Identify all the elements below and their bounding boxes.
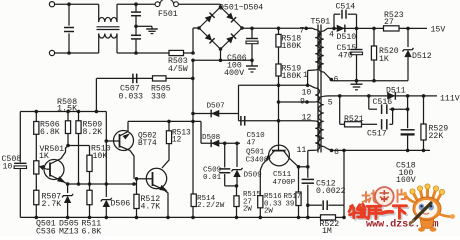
svg-text:180K: 180K xyxy=(282,42,302,51)
junction: R521 branch xyxy=(338,94,342,98)
wire: riser from startup line down to control rail xyxy=(95,78,97,111)
resistor R519 xyxy=(276,64,281,102)
transformer T501 secondary winding pins 4-6 (15V) xyxy=(319,31,324,72)
junction: Y-cap column bottom xyxy=(134,51,138,55)
svg-text:6: 6 xyxy=(334,148,339,157)
label R512 4.7K xyxy=(141,195,161,212)
svg-text:6: 6 xyxy=(334,75,339,84)
zener diode D506 xyxy=(101,198,112,218)
junction: R506 top xyxy=(35,110,39,114)
capacitor C515 xyxy=(351,28,363,80)
wire: bottom rail from R503 to main vertical bus xyxy=(184,52,194,54)
junction: R508 top xyxy=(66,110,70,114)
inductor: line filter choke core xyxy=(97,27,120,30)
transistor Q501 error amp (C536) xyxy=(44,146,68,185)
watermark text weikuyixia shadow xyxy=(351,206,408,222)
svg-text:1: 1 xyxy=(303,71,308,80)
junction: R515 bottom xyxy=(235,216,239,220)
wire: AC bottom rail from input terminal to line filter xyxy=(55,52,99,54)
svg-text:7: 7 xyxy=(300,26,305,35)
label R513 12 xyxy=(172,130,191,145)
pin label 6 (upper) xyxy=(334,75,339,84)
junction: column crosses C510 feedback line xyxy=(277,119,281,123)
junction: R529 bottom xyxy=(422,149,426,153)
label D510 xyxy=(337,33,357,42)
resistor R507 xyxy=(34,190,39,217)
junction: D507 line at vertical bus xyxy=(191,112,195,116)
watermark text www.dzsc.com xyxy=(366,218,438,230)
label R506 6.8K xyxy=(40,120,60,137)
junction: R520 bottom xyxy=(372,79,376,83)
junction: Q503 emitter bottom xyxy=(166,216,170,220)
junction: C509/D509 bottoms join R515 xyxy=(235,184,239,188)
pin label 4 xyxy=(329,31,334,40)
svg-text:C536: C536 xyxy=(36,227,56,236)
resistor R521 and capacitor C517 branch xyxy=(340,96,393,130)
resistor R520 xyxy=(371,28,376,80)
zener diode D505 xyxy=(62,184,73,217)
transformer T501 primary winding pins 7-1 xyxy=(315,30,320,71)
junction: R516 bottom xyxy=(259,216,263,220)
label R514 2.2/2W xyxy=(197,195,225,210)
svg-text:160V: 160V xyxy=(396,176,416,185)
junction: C511 bottom xyxy=(306,216,310,220)
label C510 47 xyxy=(247,132,266,147)
junction: X-cap top xyxy=(67,2,71,6)
svg-text:C516: C516 xyxy=(373,98,393,107)
svg-text:D511: D511 xyxy=(386,86,406,95)
svg-text:BT74: BT74 xyxy=(138,140,157,148)
svg-text:C3408: C3408 xyxy=(246,157,269,165)
pin 7 stub and dot xyxy=(304,27,315,31)
capacitor Y-cap lower xyxy=(131,35,141,53)
resistor R505 xyxy=(153,76,167,81)
junction: bias bus joins R512 column xyxy=(132,182,136,186)
potentiometer VR501 xyxy=(34,161,47,191)
wire: C510 feedback line to pin 12 xyxy=(239,120,312,122)
svg-text:MZ13: MZ13 xyxy=(59,227,79,236)
junction: R514 bottom xyxy=(191,216,195,220)
wire: 111V return rail from pin 6 to R529 xyxy=(332,149,431,151)
pin 5 stub xyxy=(324,95,334,97)
wire: DC+ rail from bridge right corner to transformer pin 7 xyxy=(242,27,313,29)
svg-text:D512: D512 xyxy=(412,52,432,61)
junction: R509 bottom on bias bus xyxy=(77,182,81,186)
junction: D506 bottom xyxy=(105,216,109,220)
junction: column meets pin-9 line xyxy=(277,100,281,104)
junction: Y-cap midpoint xyxy=(134,25,138,29)
svg-text:6.8K: 6.8K xyxy=(40,128,60,137)
junction: R503 rail joins vertical bus xyxy=(191,51,195,55)
wire: primary ground rail xyxy=(20,216,320,218)
label D501~D504 xyxy=(219,3,263,12)
capacitor Y-cap upper xyxy=(131,4,141,35)
resistor R518 xyxy=(276,28,281,64)
svg-text:D509: D509 xyxy=(244,171,263,179)
label F501 xyxy=(158,10,178,19)
junction: R520 top xyxy=(372,27,376,31)
label T501 xyxy=(311,17,331,26)
wire: bias bus xyxy=(68,183,137,185)
label VR501 1K xyxy=(39,145,64,161)
resistor R503 xyxy=(169,50,184,55)
svg-text:5: 5 xyxy=(328,98,333,107)
wire: Q502 base wire xyxy=(106,140,119,142)
inductor: common-mode line filter choke bottom winding xyxy=(99,34,117,54)
label C511 4700P xyxy=(273,171,296,187)
capacitor C512 isolation xyxy=(308,150,344,210)
label R510 10K xyxy=(91,144,111,160)
terminal: AC input top xyxy=(49,2,54,7)
zener diode D512 xyxy=(402,28,413,80)
watermark stamp character zhao xyxy=(363,191,377,203)
transformer T501 feedback winding pins 10-9 xyxy=(310,85,320,102)
capacitor C506 (main filter) xyxy=(246,28,258,66)
label R505 330 xyxy=(151,85,171,102)
label R515 27 2W xyxy=(243,191,261,213)
wire: pin10/pin1 line xyxy=(239,84,310,86)
capacitor across AC input (X-cap) xyxy=(64,4,74,53)
label D509 xyxy=(244,171,263,179)
inductor: common-mode line filter choke top winding xyxy=(99,4,117,22)
svg-text:39: 39 xyxy=(286,201,295,209)
junction: C515 bottom / ground xyxy=(355,79,359,83)
capacitor C518 xyxy=(401,96,415,150)
svg-text:1K: 1K xyxy=(39,152,49,161)
svg-text:1M: 1M xyxy=(322,227,332,236)
transistor Q502 BT74 xyxy=(114,121,135,178)
diode D511 xyxy=(387,92,395,100)
resistor R529 xyxy=(421,96,426,150)
junction: R529 column top xyxy=(422,94,426,98)
diode D508 xyxy=(211,139,219,147)
resistor R508 xyxy=(65,112,70,146)
wire: R508 bottom feed line xyxy=(68,145,90,147)
junction: Y-cap column top xyxy=(134,2,138,6)
label R516 0.33 2W xyxy=(264,193,282,215)
capacitor C514 snubber loop xyxy=(334,10,357,29)
label C509 0.01 xyxy=(203,167,222,182)
label C517 xyxy=(367,129,387,138)
junction: C516 branch xyxy=(367,94,371,98)
svg-text:2.7K: 2.7K xyxy=(42,200,62,209)
wire: 15V rail from pin 4 through D510 to output xyxy=(331,27,427,29)
svg-text:D510: D510 xyxy=(337,33,357,42)
wire: AC top rail from input terminal to line filter xyxy=(55,3,99,5)
label D508 xyxy=(202,134,221,142)
svg-text:0.0022: 0.0022 xyxy=(316,187,346,196)
transistor Q501 (C3408 main switch) xyxy=(263,145,299,167)
transformer T501 secondary winding pins 5-6 (111V) xyxy=(319,96,324,146)
svg-text:C511: C511 xyxy=(273,171,292,179)
svg-text:4700P: 4700P xyxy=(273,179,296,187)
wire: 15V return line from pin 6 to D512 xyxy=(331,80,408,81)
capacitor C511 xyxy=(302,167,314,218)
junction: bridge bottom on negative line xyxy=(219,59,223,63)
label R522 1M xyxy=(320,220,340,236)
label C518 100 160V xyxy=(396,162,416,185)
junction: R517 bottom xyxy=(297,216,301,220)
capacitor C508 column xyxy=(14,112,26,218)
wire: bottom rail from choke to R503 xyxy=(117,52,169,54)
svg-text:4: 4 xyxy=(329,31,334,40)
svg-text:400V: 400V xyxy=(224,68,244,78)
resistor R512 xyxy=(134,194,139,217)
wire: drive line elbow down to D508 xyxy=(201,121,240,143)
wire: bridge bottom (AC) corner down to negative line xyxy=(220,49,222,60)
resistor R516 xyxy=(258,196,263,218)
label C512 0.0022 xyxy=(316,180,346,197)
junction: negative line at vertical bus xyxy=(191,59,195,63)
label R518 180K xyxy=(282,35,302,51)
pin 1 stub xyxy=(308,70,316,85)
label R509 8.2K xyxy=(83,120,103,137)
wire: Q502 collector line xyxy=(128,120,201,122)
label D506 xyxy=(111,200,131,209)
junction: X-cap bottom xyxy=(67,51,71,55)
label Q501 C3408 xyxy=(246,149,269,165)
resistor R514 xyxy=(191,194,196,207)
svg-text:0.01: 0.01 xyxy=(203,174,222,182)
label C508 10 xyxy=(2,155,22,171)
transformer T501 core xyxy=(318,25,321,153)
label D511 xyxy=(386,86,406,95)
svg-text:T501: T501 xyxy=(311,17,331,26)
label R523 27 xyxy=(384,11,404,27)
wire: isolation riser to secondary return xyxy=(336,205,345,217)
label R529 22K xyxy=(429,125,449,142)
label C506 100 400V xyxy=(224,54,247,78)
svg-text:2.2/2W: 2.2/2W xyxy=(197,202,225,210)
junction: collector line crosses vertical bus xyxy=(191,120,195,124)
wire: 111V rail from pin 5 through D511 to output xyxy=(334,95,437,97)
junction: D509 top xyxy=(235,142,239,146)
svg-text:0.033: 0.033 xyxy=(119,92,144,101)
watermark text weikuyixia xyxy=(349,204,406,220)
junction: startup line at vertical bus xyxy=(191,77,195,81)
diode D510 xyxy=(337,25,345,33)
svg-text:15V: 15V xyxy=(431,25,446,34)
resistor R511 xyxy=(87,184,92,217)
junction: R511 bottom xyxy=(88,216,92,220)
ground symbol at Y-caps xyxy=(146,29,158,34)
junction: C517 riser joins C516 line xyxy=(391,107,395,111)
label R511 6.8K xyxy=(82,220,102,237)
wire: control rail xyxy=(20,111,106,113)
svg-text:10K: 10K xyxy=(93,152,108,161)
junction: bias bus at rail-end column xyxy=(105,182,109,186)
junction: C506 positive xyxy=(250,27,254,31)
pin 6 stub (upper) and dot xyxy=(324,72,333,81)
wire: bridge left (DC-) corner to vertical bus xyxy=(193,28,199,53)
bridge rectifier D501~D504 xyxy=(197,5,244,51)
pin label 12 xyxy=(302,114,312,123)
wire: negative line from vertical bus to C506 ground node xyxy=(193,59,252,61)
junction: R512 bottom xyxy=(135,216,139,220)
label Q502 BT74 xyxy=(138,132,157,148)
label C514 xyxy=(336,2,356,11)
svg-text:11: 11 xyxy=(297,146,307,155)
pin 11 stub xyxy=(308,150,315,167)
pin label 10 xyxy=(302,89,312,98)
svg-text:2W: 2W xyxy=(264,208,273,216)
pin label 9 xyxy=(300,97,305,106)
junction: isolation bridge riser xyxy=(342,149,346,153)
svg-text:6.8K: 6.8K xyxy=(82,227,102,236)
junction: C509 top xyxy=(223,142,227,146)
label output 111V xyxy=(440,95,460,104)
resistor R506 xyxy=(34,112,39,161)
svg-text:47: 47 xyxy=(247,139,256,147)
svg-text:27: 27 xyxy=(384,18,394,27)
junction: pin-11 / C511 node xyxy=(306,165,310,169)
zener diode D509 xyxy=(231,143,242,186)
junction: C518 bottom xyxy=(406,149,410,153)
pin label 6 (lower) xyxy=(334,148,339,157)
label R520 1K xyxy=(379,47,399,64)
wire: riser pin10-line corner down to C510 line xyxy=(238,85,240,121)
junction: riser joins control rail xyxy=(95,110,99,114)
svg-text:R521: R521 xyxy=(344,115,364,124)
label C516 xyxy=(373,98,393,107)
pin 4 stub xyxy=(324,28,331,31)
pin label 5 xyxy=(328,98,333,107)
svg-text:10: 10 xyxy=(3,162,13,171)
label output 15V xyxy=(431,25,446,34)
label R517 39 xyxy=(284,193,302,208)
svg-text:10: 10 xyxy=(302,89,312,98)
svg-text:D508: D508 xyxy=(202,134,221,142)
label R521 xyxy=(344,115,364,124)
svg-text:180K: 180K xyxy=(282,72,302,81)
watermark stamp character pian xyxy=(398,190,406,203)
pin label 1 xyxy=(303,71,308,80)
junction: C512 left on C511 column xyxy=(306,203,310,207)
capacitor C507 xyxy=(133,74,137,84)
junction: C516 line joins C518 column xyxy=(406,107,410,111)
wire: Q501 right lead to pin-11 node xyxy=(299,166,308,168)
pin label 7 xyxy=(300,26,305,35)
junction: pin 1 joins pin-10 line xyxy=(306,84,310,88)
resistor R515 xyxy=(234,186,239,218)
svg-text:C514: C514 xyxy=(336,2,356,11)
capacitor C509 xyxy=(219,143,236,186)
svg-text:8.2K: 8.2K xyxy=(83,128,103,137)
watermark mascot xyxy=(403,184,455,232)
svg-text:12: 12 xyxy=(172,137,182,145)
svg-text:9: 9 xyxy=(300,97,305,106)
svg-text:470: 470 xyxy=(338,52,353,61)
svg-text:22K: 22K xyxy=(429,132,444,141)
wire: startup line from control rail riser to vertical bus xyxy=(96,77,192,79)
svg-text:D506: D506 xyxy=(111,200,131,209)
label D512 xyxy=(412,52,432,61)
ground symbol on 15V return xyxy=(351,81,363,90)
junction: R510/R511 node on bias bus xyxy=(88,182,92,186)
wire: Y-cap midpoint to chassis ground xyxy=(136,26,152,29)
capacitor C510 xyxy=(241,116,245,126)
resistor R509 xyxy=(76,112,81,185)
wire: R513 bottom to Q503 collector xyxy=(162,144,169,168)
watermark stamp badge xyxy=(375,187,394,206)
label R519 180K xyxy=(282,65,302,81)
junction: D505 bottom xyxy=(66,216,70,220)
junction: C518 column top xyxy=(406,94,410,98)
svg-text:4.7K: 4.7K xyxy=(141,202,161,211)
junction: Q502 base node xyxy=(105,139,109,143)
resistor R523 xyxy=(384,26,400,31)
junction: pin4/C514 node xyxy=(332,27,336,31)
pin label 11 xyxy=(297,146,307,155)
transistor Q503 driver xyxy=(137,168,169,217)
svg-text:F501: F501 xyxy=(158,10,178,19)
wire: emitter node to D505 xyxy=(66,182,70,186)
wire: top rail from choke to fuse xyxy=(117,3,155,5)
junction: riser on ground rail xyxy=(342,216,346,220)
terminal: AC input bottom xyxy=(49,50,54,55)
junction: D512 top xyxy=(406,27,410,31)
label R503 4/5W xyxy=(168,57,188,74)
junction: R517 top xyxy=(297,165,301,169)
resistor R510 xyxy=(87,146,92,185)
label Q501 C536 xyxy=(36,220,56,237)
junction: D510 cathode / C515 xyxy=(355,27,359,31)
label D507 xyxy=(207,103,225,111)
svg-text:4/5W: 4/5W xyxy=(168,64,188,74)
diode D507 xyxy=(211,110,219,118)
label R507 2.7K xyxy=(42,193,62,210)
svg-text:D507: D507 xyxy=(207,103,225,111)
wire: R512 column xyxy=(136,179,138,195)
junction: Q503 base / R512 top xyxy=(135,177,139,181)
label C507 0.033 xyxy=(119,85,144,102)
resistor R517 xyxy=(296,167,301,218)
wire: top rail from fuse to bridge top corner xyxy=(178,4,220,7)
ground symbol at C506 xyxy=(246,66,258,72)
resistor R522 isolation xyxy=(321,215,336,220)
fuse F501 xyxy=(155,0,178,7)
pin 6 stub (lower) and dot xyxy=(324,147,334,153)
svg-text:1.5K: 1.5K xyxy=(57,104,78,114)
svg-text:D501~D504: D501~D504 xyxy=(219,3,263,12)
wire: Q501 emitter to R516 xyxy=(260,165,262,196)
wire: control rail end column down (base feed) xyxy=(105,112,107,198)
transformer T501 drive winding pins 12-11 xyxy=(315,121,320,150)
svg-text:1K: 1K xyxy=(379,55,389,64)
svg-text:2W: 2W xyxy=(243,206,252,214)
label D505 MZ13 xyxy=(59,220,79,237)
svg-text:111V: 111V xyxy=(440,95,460,104)
wire: R519 column continues to Q501 collector node xyxy=(278,102,280,145)
svg-text:Q501: Q501 xyxy=(246,149,265,157)
svg-text:330: 330 xyxy=(151,92,166,101)
wire: main vertical bus (bridge DC- down to ground rail) with R514 xyxy=(192,60,194,217)
junction: R518 top on DC+ rail xyxy=(277,27,281,31)
label R508 1.5K xyxy=(57,97,78,114)
label C515 470 xyxy=(337,44,357,61)
svg-text:C517: C517 xyxy=(367,129,387,138)
junction: R513 top xyxy=(167,120,171,124)
junction: R508/collector node xyxy=(66,144,70,148)
junction: R509 top xyxy=(77,110,81,114)
junction: R519 column crosses pin-10 line xyxy=(277,84,281,88)
pin 12 stub xyxy=(311,120,315,122)
capacitor C516 branch xyxy=(369,96,408,114)
wire: D507 line from vertical bus xyxy=(193,113,239,115)
junction: R507 bottom xyxy=(35,216,39,220)
resistor R513 xyxy=(166,121,171,143)
pin 9 stub and dot xyxy=(279,100,315,104)
